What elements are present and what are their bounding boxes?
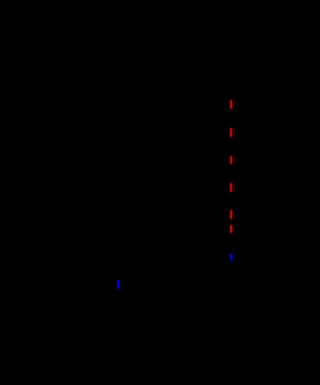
red dash 4 (230, 183, 232, 192)
red dash 6 (bottom of dashed trajectory line) (230, 225, 232, 233)
red dash 2 (230, 128, 232, 137)
red dash 1 (top of dashed trajectory line) (230, 100, 232, 109)
red dash 5 (230, 210, 232, 219)
red dash 3 (230, 156, 232, 164)
blue dash B (object at lower left) (117, 280, 119, 289)
blue dash A (object on same column as red line) (230, 253, 232, 261)
